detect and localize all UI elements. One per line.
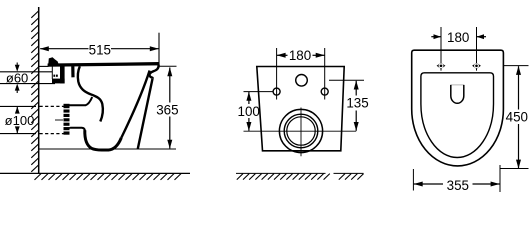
svg-text:355: 355 [447, 178, 469, 193]
svg-text:135: 135 [346, 96, 368, 111]
dimension 365 [160, 66, 177, 148]
water inlet pipe lines (o60) [0, 71, 53, 73]
dimension 355 [413, 165, 500, 192]
ground hatching middle [237, 174, 364, 180]
flush U shape [451, 85, 464, 103]
svg-text:100: 100 [238, 104, 260, 119]
seat inner outline [421, 73, 494, 158]
ground middle view [236, 172, 364, 174]
bolt hole left [273, 88, 280, 95]
wall hatching [31, 11, 38, 172]
dim line 135 [355, 81, 357, 96]
dimension 515 [40, 33, 159, 65]
arrows 135 [354, 81, 359, 90]
waste pipe dashed lines (o100) [40, 105, 65, 107]
seat outer outline [412, 50, 504, 166]
dim 180 stubs [431, 36, 441, 38]
svg-text:ø100: ø100 [5, 113, 35, 128]
wall line [38, 7, 40, 174]
ext line 100 top [244, 91, 273, 93]
ext lines 180 right view [440, 27, 442, 71]
outlet circles [279, 109, 322, 152]
mounting bump on top [48, 57, 58, 64]
arrows 180 middle [277, 53, 286, 58]
dimension 450 [500, 66, 529, 169]
svg-text:365: 365 [156, 103, 178, 118]
trap bottom line [69, 128, 85, 131]
seat front S-curve [149, 65, 158, 78]
ground line left view [0, 172, 190, 174]
bolt symbol left [437, 63, 446, 69]
bowl inner front wall [121, 71, 149, 138]
svg-text:450: 450 [506, 110, 528, 125]
flush box left edge [51, 66, 53, 79]
arrows 100 [246, 92, 251, 101]
arrows 180 right [434, 34, 442, 39]
svg-text:180: 180 [447, 30, 469, 45]
wall-to-rim thin line [39, 65, 49, 67]
svg-text:ø60: ø60 [6, 71, 28, 86]
bolt symbol right [472, 63, 481, 69]
trap top line [69, 97, 93, 105]
outlet crosshair vertical [300, 108, 302, 157]
ground hatching left view [35, 174, 182, 180]
toilet bottom reference line [39, 148, 176, 150]
outer front diagonal [138, 78, 153, 149]
svg-text:515: 515 [89, 42, 111, 57]
extension lines 180 through bolts [276, 48, 278, 100]
dimension o60 [16, 63, 18, 94]
toilet top surface thick line [48, 64, 159, 65]
ext line 135 top [329, 79, 364, 81]
bellows connector [63, 104, 70, 135]
bolt dots in box [53, 75, 55, 77]
inlet circle top [296, 75, 308, 87]
outlet crosshair horizontal [244, 130, 357, 132]
svg-text:180: 180 [289, 48, 311, 63]
centerline dash [55, 119, 63, 121]
flush box L bar [52, 79, 65, 84]
dim line 100 [248, 92, 250, 104]
bowl interior sweep curve [71, 66, 74, 77]
dimension o100 [0, 106, 36, 133]
panel outline [257, 67, 344, 151]
bolt hole right [321, 88, 328, 95]
dim line 180 middle [277, 54, 288, 56]
bowl bottom U [85, 130, 122, 150]
